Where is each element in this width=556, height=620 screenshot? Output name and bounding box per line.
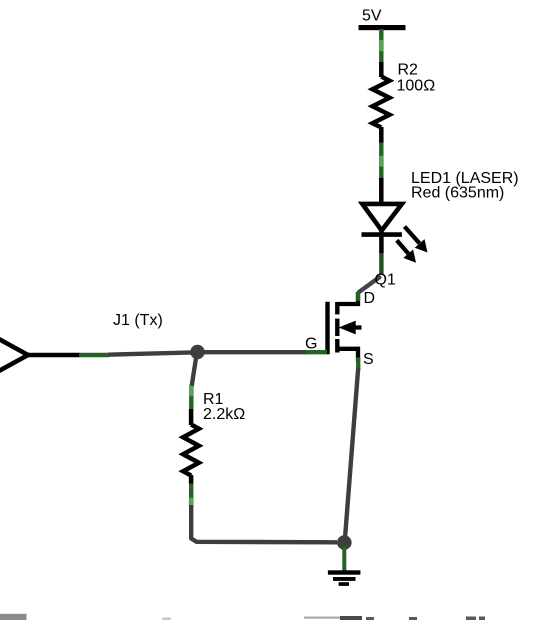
wire J1 to junction — [108, 352, 198, 354]
svg-text:Red (635nm): Red (635nm) — [411, 184, 504, 201]
power symbol 5V — [359, 8, 406, 31]
source lead — [337, 349, 358, 361]
gate pin leg — [305, 350, 328, 354]
node R1 bottom pin leg — [189, 484, 193, 507]
drain lead — [337, 292, 358, 304]
junction node B — [337, 535, 352, 550]
substrate arrow — [353, 325, 362, 329]
partial content cut off at bottom edge — [0, 614, 485, 620]
svg-text:Q1: Q1 — [375, 271, 396, 288]
svg-text:D: D — [364, 290, 376, 307]
resistor R2 — [373, 62, 436, 144]
node LED1 cathode leg — [379, 253, 383, 275]
svg-text:G: G — [305, 336, 317, 353]
wire R2 to LED1 (green pin legs) — [379, 143, 383, 180]
source pin leg — [356, 358, 360, 371]
transistor Q1 (N-MOSFET) — [305, 271, 396, 370]
svg-text:R2: R2 — [398, 62, 419, 79]
wire R1 to ground junction — [191, 505, 337, 542]
node J1 pin leg — [79, 353, 109, 357]
svg-text:100Ω: 100Ω — [397, 78, 436, 95]
wire LED1 to Q1 drain — [359, 277, 379, 292]
svg-text:J1 (Tx): J1 (Tx) — [113, 312, 163, 329]
ground — [328, 570, 361, 586]
channel dashes — [335, 302, 339, 314]
connector J1 (Tx) — [0, 312, 163, 372]
wire Q1 source to ground junction — [345, 368, 358, 538]
svg-text:2.2kΩ: 2.2kΩ — [203, 406, 245, 423]
wire junction down to R1 — [192, 355, 197, 387]
LED LED1 (LASER) — [362, 170, 519, 263]
gate bar — [325, 302, 329, 354]
drain pin leg — [356, 292, 360, 301]
node 5V pin leg — [379, 29, 383, 63]
wire junction to Q1 gate — [198, 350, 306, 354]
svg-text:S: S — [363, 351, 374, 368]
junction node A — [190, 345, 204, 359]
resistor R1 — [183, 391, 245, 484]
node ground pin leg — [342, 546, 346, 571]
node R1 top pin leg — [189, 386, 193, 410]
svg-text:5V: 5V — [362, 8, 382, 25]
